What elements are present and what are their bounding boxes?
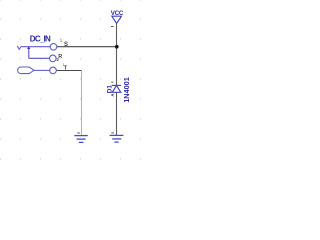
tip bullet (18, 67, 34, 74)
svg-text:3: 3 (60, 39, 62, 43)
connector J1 DC_IN barrel jack (17, 44, 57, 74)
ring line (29, 57, 50, 59)
tip line (34, 69, 50, 71)
svg-text:1N4001: 1N4001 (122, 77, 131, 103)
wire net VCC vertical (116, 23, 118, 135)
wire net T horizontal (57, 70, 83, 72)
power VCC symbol (111, 16, 121, 27)
switch arrow head (27, 46, 30, 49)
cathode bar (112, 84, 121, 86)
anode triangle (112, 86, 121, 93)
svg-text:S: S (64, 42, 68, 48)
svg-text:DC_IN: DC_IN (30, 34, 51, 43)
sleeve chevron (17, 46, 21, 49)
svg-text:VCC: VCC (111, 10, 124, 17)
pin circle R (50, 55, 57, 62)
wire net T vertical (81, 70, 83, 135)
pin circle S (50, 44, 57, 51)
VCC pin tick (111, 26, 114, 27)
sleeve line (22, 46, 51, 48)
switch arrow stem (28, 49, 30, 59)
wire net S horizontal (57, 46, 117, 48)
ground GND left (74, 136, 88, 143)
pin circle T (50, 67, 57, 74)
svg-text:D1: D1 (107, 85, 114, 94)
ground GND right (110, 135, 124, 142)
diode D1 (112, 85, 121, 92)
ground right pin tick (111, 132, 114, 133)
junction (115, 45, 119, 49)
ground left pin tick (77, 133, 80, 134)
svg-text:R: R (58, 54, 62, 60)
